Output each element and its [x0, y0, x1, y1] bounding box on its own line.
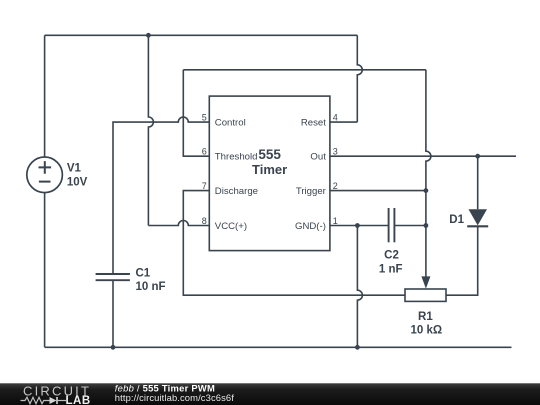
CircuitLab logo — [21, 383, 92, 405]
wire VCC rail down with hop over control wire — [148, 35, 153, 225]
wire gnd vertical with hop over R1 left wire — [357, 226, 362, 348]
wire R1 right to diode cathode — [446, 226, 478, 295]
svg-text:Timer: Timer — [252, 162, 287, 177]
svg-text:1: 1 — [333, 216, 338, 226]
svg-text:GND(-): GND(-) — [295, 221, 326, 232]
svg-text:10 nF: 10 nF — [136, 281, 166, 293]
IC U1 555 Timer body — [209, 96, 330, 251]
wire reset pin 4 stub — [330, 121, 357, 123]
pin 3 Out — [310, 147, 337, 163]
svg-text:10V: 10V — [67, 176, 88, 188]
wire C1 bottom — [112, 280, 114, 347]
svg-text:V1: V1 — [67, 163, 82, 175]
svg-text:LAB: LAB — [66, 395, 91, 405]
svg-text:3: 3 — [333, 147, 338, 157]
svg-text:C1: C1 — [136, 268, 151, 280]
wire top rail right segment to reset corner — [148, 34, 357, 36]
label C2 value — [379, 250, 403, 276]
wire wiper vertical with hop over out wire — [426, 70, 431, 281]
svg-text:Trigger: Trigger — [296, 186, 327, 197]
wire top rail left segment — [45, 34, 149, 36]
svg-text:VCC(+): VCC(+) — [215, 221, 247, 232]
svg-text:4: 4 — [333, 112, 338, 122]
diode D1 — [467, 209, 488, 226]
junction node C2 right / wiper rail — [424, 223, 429, 228]
wire trigger pin 2 stub — [330, 190, 426, 192]
svg-text:Reset: Reset — [301, 118, 326, 129]
svg-text:10 kΩ: 10 kΩ — [410, 324, 442, 336]
svg-text:6: 6 — [202, 147, 207, 157]
svg-text:7: 7 — [202, 181, 207, 191]
wire bottom rail — [45, 346, 512, 348]
label R1 value — [410, 311, 442, 336]
wire diode anode up to out junction — [477, 156, 479, 209]
svg-text:R1: R1 — [418, 311, 433, 323]
svg-text:5: 5 — [202, 112, 207, 122]
wire out pin 3 to right edge — [330, 155, 516, 157]
wire VCC pin 8 stub with hop over discharge vertical — [148, 221, 209, 226]
pin 4 Reset — [301, 112, 338, 128]
pin 1 GND(-) — [295, 216, 338, 232]
wire reset vertical with hop over threshold rail — [357, 35, 362, 122]
pin 8 VCC(+) — [202, 216, 247, 232]
junction node out / diode anode — [475, 154, 480, 159]
pin 2 Trigger — [296, 181, 338, 197]
pin 6 Threshold — [202, 147, 258, 163]
svg-text:Discharge: Discharge — [215, 186, 258, 197]
svg-text:Out: Out — [310, 152, 326, 163]
junction node gnd vertical / bottom rail — [355, 345, 360, 350]
svg-text:Control: Control — [215, 118, 246, 129]
voltage source V1 — [27, 157, 63, 193]
wire threshold pin 6 up to second rail — [183, 70, 209, 156]
footer bar — [0, 383, 540, 405]
wire V1 bottom down — [44, 193, 46, 348]
potentiometer R1 — [405, 276, 446, 301]
wire gnd pin 1 to C2 left plate — [330, 225, 389, 227]
wire second rail threshold to wiper — [183, 69, 426, 71]
svg-text:2: 2 — [333, 181, 338, 191]
label V1 value — [67, 163, 88, 189]
svg-text:C2: C2 — [384, 250, 399, 262]
junction node C1 bottom / bottom rail — [111, 345, 116, 350]
footer title text — [115, 382, 234, 403]
junction node gnd pin / gnd vertical — [355, 223, 360, 228]
svg-text:D1: D1 — [449, 214, 464, 226]
svg-text:1 nF: 1 nF — [379, 263, 403, 275]
wire C1 top to control pin 5 — [113, 117, 209, 274]
junction node at VCC rail / top rail — [146, 33, 151, 38]
svg-text:Threshold: Threshold — [215, 152, 258, 163]
label D1 — [449, 214, 464, 226]
capacitor C1 — [96, 274, 130, 280]
pin 7 Discharge — [202, 181, 258, 197]
pin 5 Control — [202, 112, 246, 128]
wire V1 top to top rail — [44, 35, 46, 157]
junction node trigger / wiper rail — [424, 188, 429, 193]
wire C2 right plate to wiper rail — [394, 225, 426, 227]
svg-text:8: 8 — [202, 216, 207, 226]
label C1 value — [136, 268, 166, 294]
svg-text:555: 555 — [258, 147, 281, 162]
capacitor C2 — [389, 208, 395, 242]
wire discharge pin 7 down to R1 left — [183, 191, 405, 296]
svg-text:http://circuitlab.com/c3c6s6f: http://circuitlab.com/c3c6s6f — [115, 392, 234, 403]
